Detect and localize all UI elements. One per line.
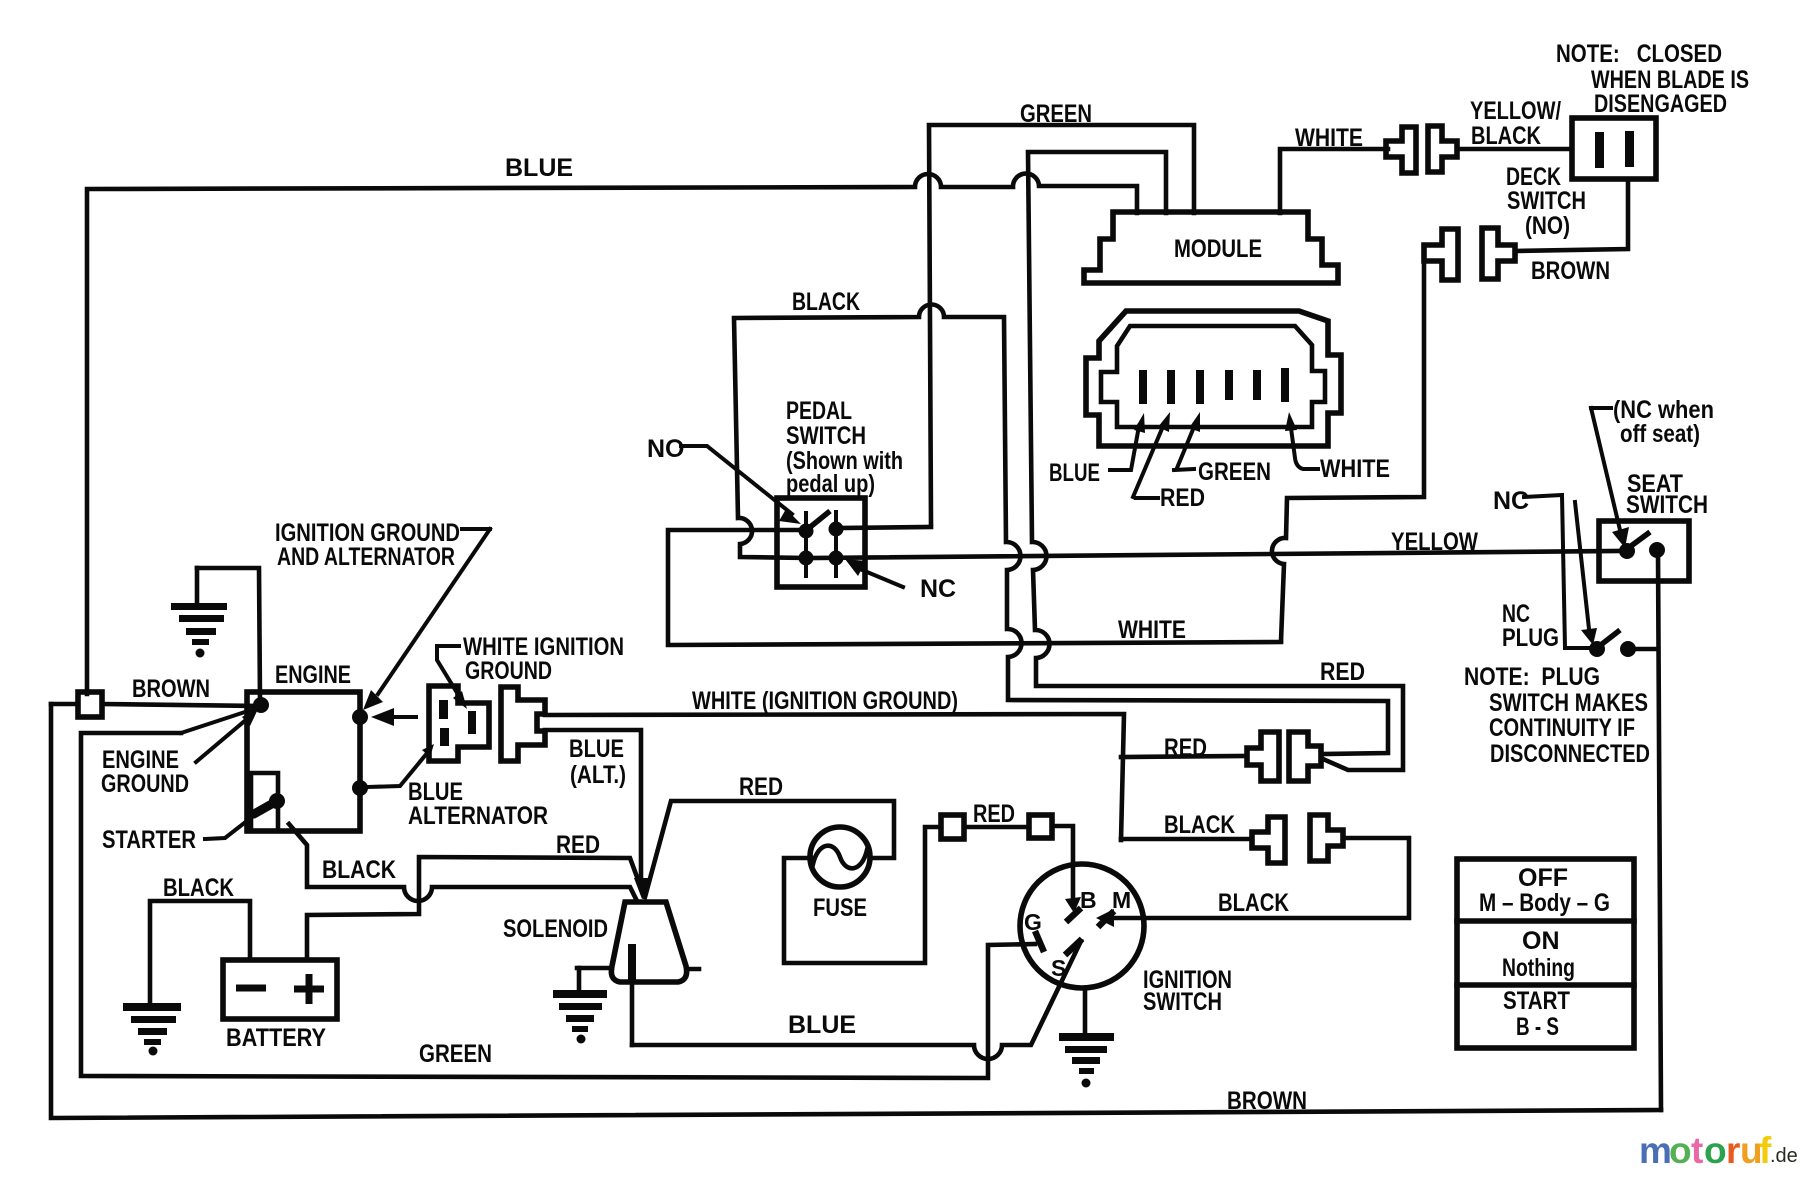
wire BROWN left edge down to bottom run xyxy=(51,704,1661,1118)
connector pair (white wire to deck switch) right plug xyxy=(1428,126,1457,172)
pointer arrow (horizontal into alternator dot) xyxy=(371,708,416,726)
svg-text:RED: RED xyxy=(973,800,1015,828)
node starter (dot with lever) xyxy=(254,793,285,814)
table OFF/ON/START xyxy=(1457,859,1634,1048)
svg-text:GROUND: GROUND xyxy=(465,657,552,685)
svg-text:OFF: OFF xyxy=(1518,864,1568,892)
svg-text:BLUE: BLUE xyxy=(569,735,624,763)
svg-text:off seat): off seat) xyxy=(1620,420,1700,448)
svg-text:m: m xyxy=(1639,1130,1672,1171)
wire ignition ground to engine ground dot xyxy=(197,568,260,701)
connector pin 1 xyxy=(1139,370,1147,404)
wire RED fuse chain (solenoid to fuse loop to ignition B) xyxy=(645,801,1081,963)
pointer NC to pedal pin xyxy=(845,559,903,587)
svg-text:SWITCH: SWITCH xyxy=(1507,187,1586,215)
svg-text:BLUE: BLUE xyxy=(1049,459,1100,487)
wire WHITE ignition ground (plug to right side chain) xyxy=(545,714,1124,840)
connector pair (brown) right plug xyxy=(1482,228,1515,279)
ground symbol (solenoid) xyxy=(553,968,607,1044)
svg-text:BLACK: BLACK xyxy=(792,288,860,316)
svg-text:YELLOW/: YELLOW/ xyxy=(1470,97,1561,125)
svg-text:(ALT.): (ALT.) xyxy=(570,761,626,789)
svg-text:BROWN: BROWN xyxy=(1227,1087,1307,1115)
svg-text:GREEN: GREEN xyxy=(1020,100,1092,128)
leader NC (seat) bent wire to NC plug xyxy=(1524,495,1592,648)
solenoid (trapezoid with plunger) xyxy=(577,902,699,1045)
NC plug (two dots with lever) xyxy=(1589,630,1658,657)
pointer STARTER to dot xyxy=(205,803,270,839)
svg-text:(NO): (NO) xyxy=(1525,212,1570,240)
svg-text:BLACK: BLACK xyxy=(322,856,396,884)
ground symbol (ignition switch) xyxy=(1059,988,1114,1088)
wire WHITE module to connector pair xyxy=(1280,149,1388,213)
svg-text:.de: .de xyxy=(1770,1145,1798,1167)
wire BLUE (ALT.) plug to solenoid xyxy=(545,730,650,899)
pointer (NC when off seat) xyxy=(1591,408,1629,548)
svg-text:o: o xyxy=(1704,1130,1727,1171)
svg-text:WHITE: WHITE xyxy=(1295,124,1363,152)
wire from right plug to deck switch xyxy=(1457,147,1572,152)
svg-text:WHITE: WHITE xyxy=(1118,616,1186,644)
svg-text:BATTERY: BATTERY xyxy=(226,1024,326,1052)
svg-text:GREEN: GREEN xyxy=(1198,458,1271,486)
svg-text:RED: RED xyxy=(1320,658,1365,686)
svg-text:NO: NO xyxy=(647,435,685,463)
pedal switch (box with four pins) xyxy=(777,498,865,587)
svg-text:M – Body – G: M – Body – G xyxy=(1479,889,1610,917)
pointer IGNITION GROUND AND ALTERNATOR (diagonal to dot) xyxy=(363,529,490,710)
svg-text:MODULE: MODULE xyxy=(1174,235,1262,263)
pointer WHITE IGNITION GROUND xyxy=(437,646,467,709)
svg-text:PLUG: PLUG xyxy=(1502,624,1559,652)
svg-text:DISCONNECTED: DISCONNECTED xyxy=(1490,740,1650,768)
svg-text:SWITCH: SWITCH xyxy=(786,422,866,450)
svg-text:Nothing: Nothing xyxy=(1502,954,1575,982)
wire YELLOW left leg and WHITE return (U shape) xyxy=(668,530,1281,645)
connector pin 6 xyxy=(1281,368,1289,402)
svg-text:BLACK: BLACK xyxy=(1218,889,1289,917)
svg-text:AND ALTERNATOR: AND ALTERNATOR xyxy=(277,543,455,571)
wire GREEN pedal (top right pin to vertical) xyxy=(836,527,931,528)
node ignition ground and alternator (dot) xyxy=(352,709,368,725)
pointer NO to pedal pin xyxy=(681,446,801,524)
pointer BLUE ALTERNATOR xyxy=(368,744,434,787)
svg-text:pedal up): pedal up) xyxy=(786,470,875,498)
leader WHITE to pin6 xyxy=(1285,412,1318,469)
svg-text:GREEN: GREEN xyxy=(419,1040,492,1068)
module U1 (stepped box) xyxy=(1084,212,1338,283)
svg-text:B: B xyxy=(1080,887,1097,913)
svg-text:BLACK: BLACK xyxy=(163,874,234,902)
svg-text:BROWN: BROWN xyxy=(1531,257,1610,285)
svg-text:BLACK: BLACK xyxy=(1471,122,1541,150)
connector pin 2 xyxy=(1167,370,1175,404)
white ignition ground plug (female half) xyxy=(501,687,545,761)
svg-text:BLUE: BLUE xyxy=(788,1011,856,1039)
wire BLACK pedal switch loop (pedal pin up over to right vertical, to red connector) xyxy=(734,304,1388,754)
red inline connector box 1 xyxy=(941,815,964,839)
svg-text:START: START xyxy=(1503,987,1570,1015)
wire deck switch down to brown connector pair xyxy=(1515,179,1628,251)
svg-text:WHITE (IGNITION GROUND): WHITE (IGNITION GROUND) xyxy=(692,687,958,715)
svg-text:RED: RED xyxy=(1160,484,1205,512)
svg-text:STARTER: STARTER xyxy=(102,826,196,854)
svg-text:S: S xyxy=(1051,955,1066,981)
wire RED battery to solenoid and fuse xyxy=(307,857,644,960)
wire right side vertical (seat switch chain down to brown) xyxy=(1658,551,1661,1110)
svg-text:WHITE: WHITE xyxy=(1320,455,1390,483)
svg-text:NOTE: CLOSED: NOTE: CLOSED xyxy=(1556,40,1722,68)
ground symbol (battery) xyxy=(123,1003,181,1056)
svg-text:BLACK: BLACK xyxy=(1164,811,1235,839)
svg-text:SWITCH MAKES: SWITCH MAKES xyxy=(1489,689,1648,717)
leader RED to pin2 xyxy=(1133,412,1170,498)
wire BLUE solenoid to ignition S (hop over green vertical) xyxy=(632,941,1081,1059)
svg-text:ON: ON xyxy=(1522,927,1560,955)
logo motoruf.de xyxy=(1639,1130,1798,1171)
svg-text:NC: NC xyxy=(1493,487,1529,515)
engine wiring connector (rounded stepped outline, outer) xyxy=(1086,311,1341,446)
wire GREEN bottom (engine ground to ignition G) xyxy=(81,709,1035,1078)
wire brown plug down-left-down chain to white wire xyxy=(1272,253,1424,641)
wire BLACK starter to solenoid (with dip under red) xyxy=(289,824,637,901)
svg-text:RED: RED xyxy=(739,773,783,801)
pointer ENGINE GROUND to dot xyxy=(196,707,259,762)
svg-text:CONTINUITY IF: CONTINUITY IF xyxy=(1489,714,1635,742)
pointer diagonal to NC plug xyxy=(1575,502,1597,645)
ground symbol (ignition ground, upper left) xyxy=(171,568,227,658)
wire RED inner chain (left red plug to white-ignition vertical) xyxy=(1121,756,1247,757)
black connector pair left plug xyxy=(1252,817,1285,863)
red connector pair right plug xyxy=(1289,732,1321,781)
deck switch (box with two bars) xyxy=(1572,118,1656,179)
connector pair (white wire to deck switch) left plug xyxy=(1386,127,1416,173)
connector pair (brown) left plug xyxy=(1424,229,1458,280)
node blue alternator (dot) xyxy=(352,780,368,796)
leader BLUE to pin1 xyxy=(1110,413,1145,470)
svg-text:B - S: B - S xyxy=(1516,1013,1559,1041)
svg-text:GROUND: GROUND xyxy=(101,770,189,798)
engine block xyxy=(247,692,360,831)
svg-text:RED: RED xyxy=(556,831,600,859)
connector pin 3 xyxy=(1196,370,1204,404)
engine wiring connector (inner outline) xyxy=(1101,326,1325,427)
black connector pair right plug xyxy=(1310,815,1343,861)
svg-text:G: G xyxy=(1024,909,1042,935)
ignition switch (circle with B M G S) xyxy=(1020,864,1144,988)
svg-text:FUSE: FUSE xyxy=(813,894,867,922)
svg-text:SWITCH: SWITCH xyxy=(1626,491,1708,519)
wire BLACK battery negative to ground xyxy=(150,901,250,1005)
wire YELLOW (pedal to seat switch) xyxy=(806,551,1620,558)
svg-text:BROWN: BROWN xyxy=(132,675,210,703)
wire BROWN (box to engine ground dot, and left stub) xyxy=(51,704,256,706)
white ignition ground plug (male half) xyxy=(429,686,489,761)
leader GREEN to pin3 xyxy=(1174,412,1200,470)
svg-text:SOLENOID: SOLENOID xyxy=(503,915,608,943)
svg-text:NOTE: PLUG: NOTE: PLUG xyxy=(1464,663,1600,691)
svg-text:ENGINE: ENGINE xyxy=(275,661,351,689)
connector pin 4 xyxy=(1225,370,1233,400)
starter sub-box xyxy=(251,773,278,831)
wire GREEN top (module pin to pedal switch vertical) xyxy=(929,125,1194,524)
svg-text:DISENGAGED: DISENGAGED xyxy=(1594,90,1727,118)
fuse (circle with S curve) xyxy=(810,827,870,887)
svg-text:RED: RED xyxy=(1164,734,1207,762)
battery xyxy=(223,960,337,1019)
wire BLACK lower chain (white-ign vertical to black connector pair to ignition M) xyxy=(1096,838,1409,927)
connector pin 5 xyxy=(1253,370,1261,400)
seat switch (box with two pins and lever) xyxy=(1599,521,1689,581)
svg-text:NC: NC xyxy=(920,575,956,603)
wire BLUE top (left edge long run with hops, down left side to brown connector box) xyxy=(87,174,1137,694)
svg-text:BLUE: BLUE xyxy=(505,154,573,182)
wire module second pin elbow (module to long vertical, down right side to red connector) xyxy=(1028,152,1403,770)
brown connector box (top left) xyxy=(78,692,102,717)
red inline connector box 2 xyxy=(1029,815,1052,838)
svg-text:t: t xyxy=(1691,1130,1703,1171)
svg-text:PEDAL: PEDAL xyxy=(786,397,852,425)
svg-text:YELLOW: YELLOW xyxy=(1391,528,1478,556)
svg-text:ALTERNATOR: ALTERNATOR xyxy=(408,802,548,830)
svg-text:o: o xyxy=(1669,1130,1692,1171)
red connector pair left plug xyxy=(1247,732,1279,781)
node engine ground (dot) xyxy=(253,697,269,713)
svg-text:r: r xyxy=(1726,1130,1740,1171)
svg-text:SWITCH: SWITCH xyxy=(1143,988,1222,1016)
svg-text:M: M xyxy=(1112,887,1131,913)
